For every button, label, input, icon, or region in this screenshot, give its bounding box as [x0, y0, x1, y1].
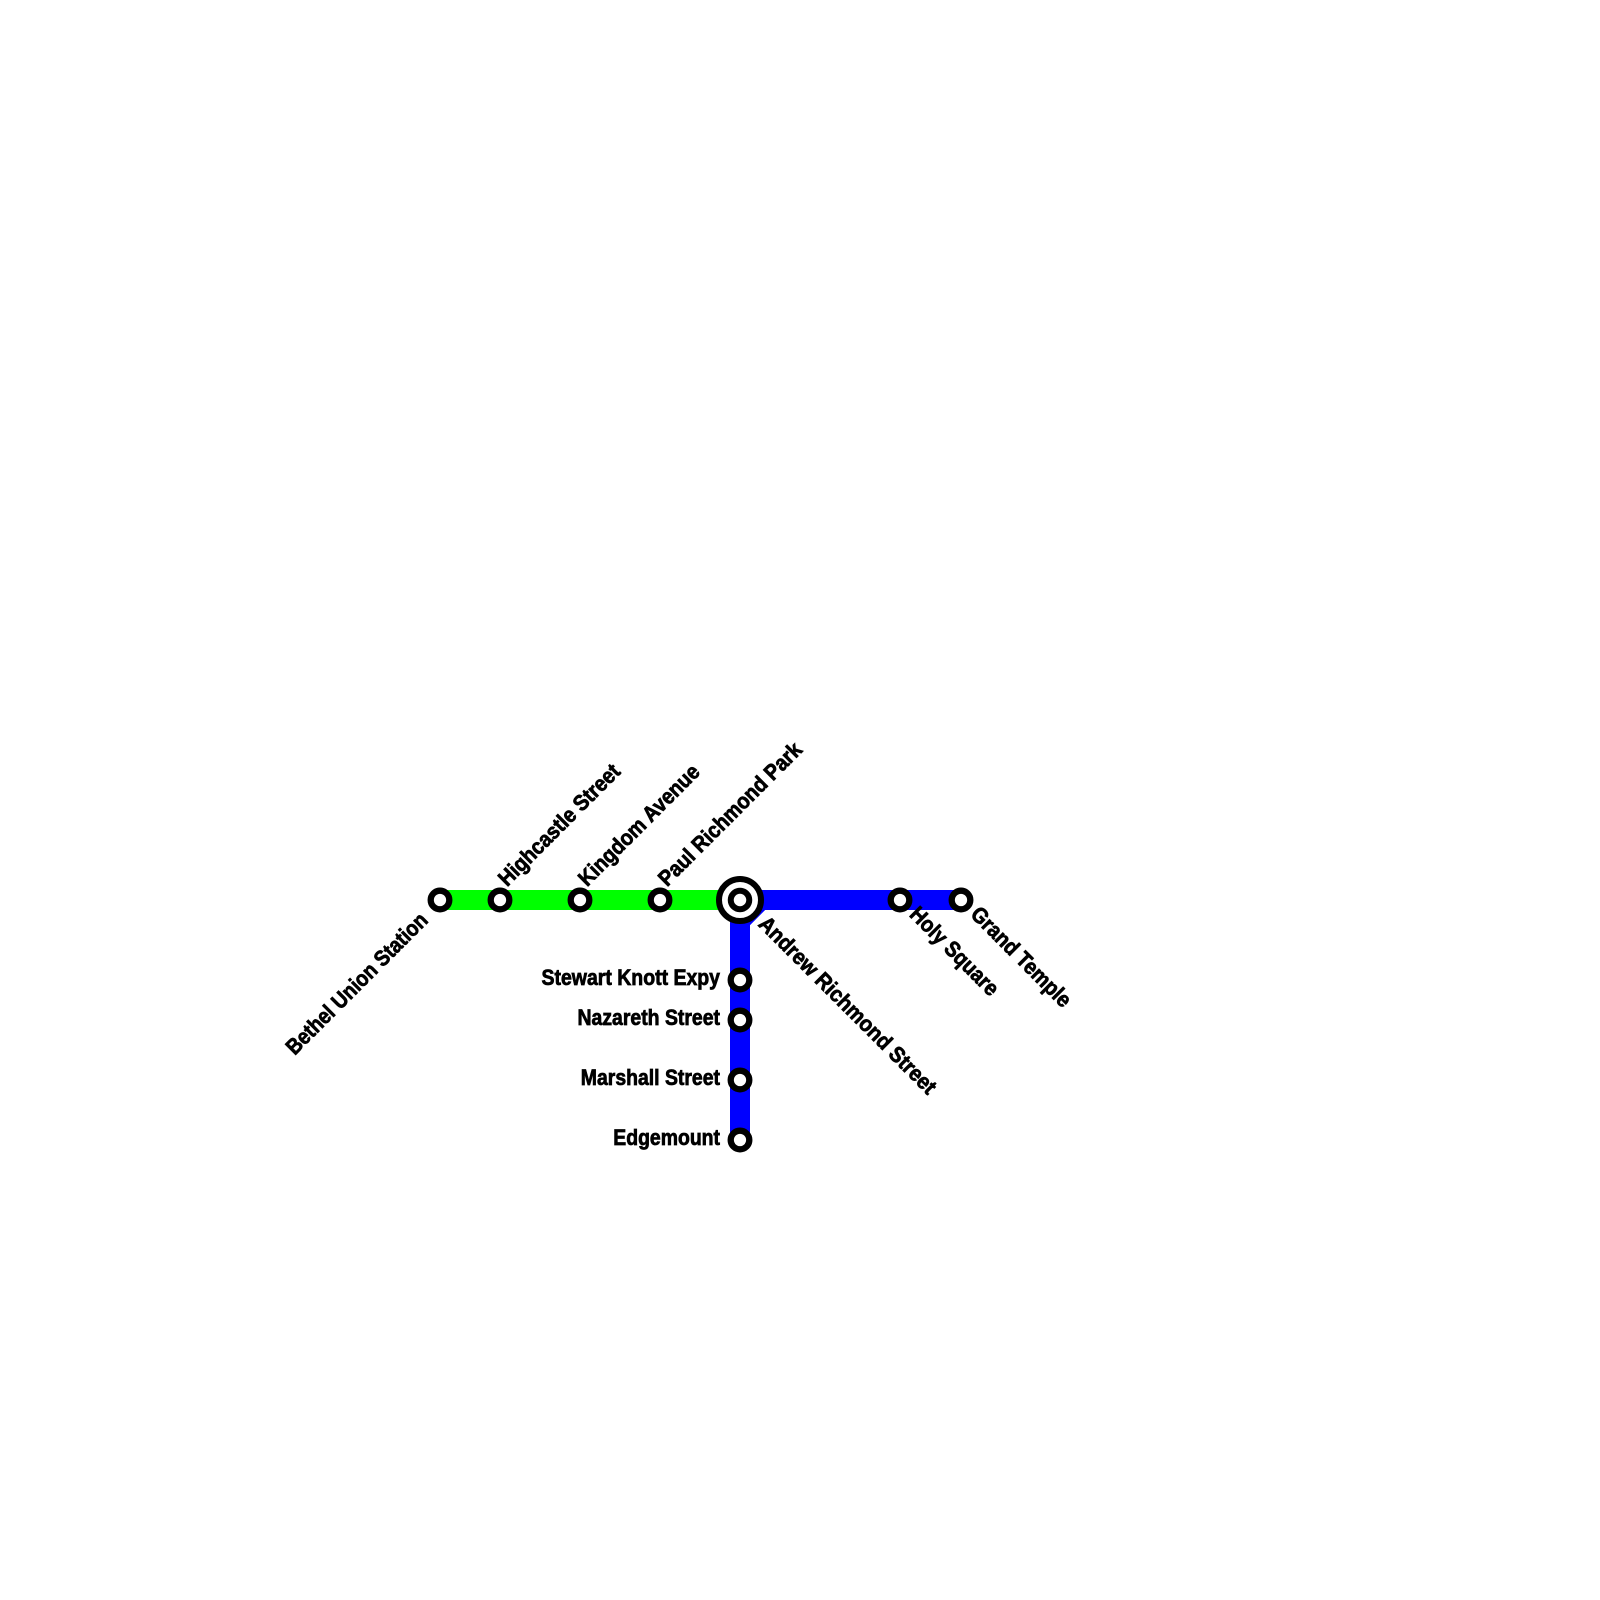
- interchange Andrew Richmond Street: [719, 879, 761, 921]
- station Edgemount: [731, 1131, 750, 1150]
- blue line Andrew Richmond Street to Grand Temple and Edgemount: [740, 900, 961, 1140]
- station Holy Square: [891, 891, 910, 910]
- station Kingdom Avenue: [571, 891, 590, 910]
- station Grand Temple: [952, 891, 971, 910]
- station Stewart Knott Expy: [731, 971, 750, 990]
- svg-text:Marshall Street: Marshall Street: [581, 1065, 721, 1090]
- label Grand Temple: [966, 901, 1077, 1012]
- station Paul Richmond Park: [651, 891, 670, 910]
- svg-text:Nazareth Street: Nazareth Street: [578, 1005, 721, 1030]
- station Marshall Street: [731, 1071, 750, 1090]
- label Paul Richmond Park: [653, 736, 807, 890]
- green line Bethel Union Station to Andrew Richmond Street: [440, 890, 740, 910]
- label Holy Square: [905, 901, 1004, 1000]
- station Bethel Union Station: [431, 891, 450, 910]
- svg-text:Stewart Knott Expy: Stewart Knott Expy: [542, 965, 721, 990]
- station Highcastle Street: [491, 891, 510, 910]
- label Bethel Union Station: [281, 907, 433, 1059]
- station Nazareth Street: [731, 1011, 750, 1030]
- label Andrew Richmond Street: [754, 911, 943, 1100]
- svg-text:Edgemount: Edgemount: [613, 1125, 720, 1150]
- label Highcastle Street: [493, 758, 626, 891]
- label Kingdom Avenue: [573, 759, 705, 891]
